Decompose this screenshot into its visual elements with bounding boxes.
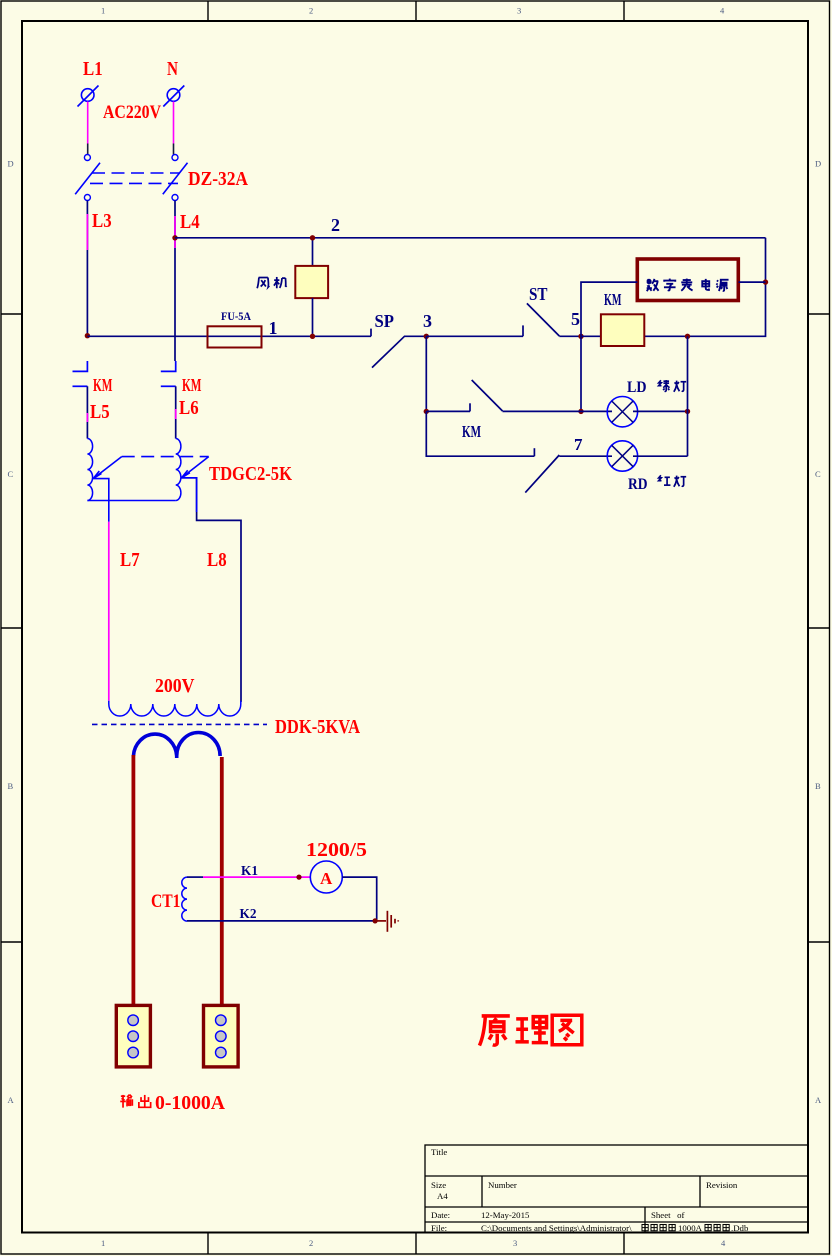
wire LD lamp left <box>581 410 612 412</box>
fan branch wire bottom <box>312 298 314 336</box>
svg-text:1: 1 <box>269 318 278 338</box>
wire N magenta <box>173 102 175 144</box>
svg-text:Number: Number <box>488 1180 517 1190</box>
svg-text:ST: ST <box>529 284 548 304</box>
fan branch wire top <box>312 238 314 266</box>
svg-text:L1: L1 <box>83 58 103 80</box>
node LD left junction <box>578 409 583 414</box>
breaker DZ-32A bottom pin circles <box>84 195 178 201</box>
wire 5 to KM coil <box>581 335 601 337</box>
node 5 junction <box>578 334 583 339</box>
node K1 junction <box>296 875 301 880</box>
svg-text:CT1: CT1 <box>151 891 181 912</box>
svg-text:1: 1 <box>101 1238 105 1248</box>
wire meter box left <box>581 282 637 336</box>
svg-text:LD: LD <box>627 379 647 396</box>
ground symbol <box>375 911 398 932</box>
svg-text:L3: L3 <box>92 210 112 232</box>
svg-text:12-May-2015: 12-May-2015 <box>481 1210 530 1220</box>
output terminal block right <box>204 1005 239 1067</box>
breaker DZ-32A dashed link <box>90 173 180 183</box>
svg-text:D: D <box>8 159 14 169</box>
border tick left B|C <box>1 627 22 629</box>
svg-text:Title: Title <box>431 1147 447 1157</box>
node KM aux junction <box>424 409 429 414</box>
svg-text:L5: L5 <box>90 401 110 423</box>
node lamp rail junction <box>685 334 690 339</box>
svg-text:3: 3 <box>423 311 432 331</box>
terminal L1 circle <box>78 86 99 107</box>
wire L8 blue top <box>182 478 197 512</box>
wire node aux down to RD row <box>426 411 534 456</box>
wire L8 from wiper <box>182 478 241 702</box>
variac winding bottom link <box>87 500 175 502</box>
wire L4 <box>174 201 176 362</box>
svg-text:3: 3 <box>517 6 521 16</box>
node meter box right junction <box>763 279 768 284</box>
svg-text:K1: K1 <box>241 864 258 879</box>
svg-text:Sheet of: Sheet of <box>651 1210 685 1220</box>
contactor coil KM box <box>601 314 644 346</box>
node L4/wire2 junction <box>172 235 177 240</box>
ammeter A <box>310 861 342 893</box>
border tick right B|C <box>808 627 830 629</box>
svg-text:C: C <box>8 469 14 479</box>
svg-text:200V: 200V <box>155 675 195 697</box>
svg-text:4: 4 <box>720 6 725 16</box>
wire K1 stub <box>187 876 203 878</box>
wire L7 magenta <box>108 522 110 701</box>
wire L6 <box>175 386 177 438</box>
border tick bottom 2|3 <box>415 1233 417 1255</box>
current transformer CT1 winding <box>182 877 187 921</box>
svg-text:AC220V: AC220V <box>103 102 161 123</box>
svg-text:File:: File: <box>431 1223 447 1233</box>
wire L7 from wiper <box>93 479 109 522</box>
svg-text:DZ-32A: DZ-32A <box>188 168 248 190</box>
title block frame <box>425 1145 808 1233</box>
wire meter box right <box>739 281 766 283</box>
svg-text:1: 1 <box>101 6 105 16</box>
wire LD lamp right <box>633 410 688 412</box>
svg-text:C: C <box>815 469 821 479</box>
fan box (blower) <box>295 266 328 298</box>
variac T1 right winding <box>176 439 181 501</box>
svg-text:.Ddb: .Ddb <box>731 1223 749 1233</box>
svg-text:D: D <box>815 159 821 169</box>
breaker DZ-32A top pin circles <box>84 155 178 161</box>
node fan top junction <box>310 235 315 240</box>
wire 3 to ST <box>426 335 523 337</box>
svg-text:L7: L7 <box>120 549 140 571</box>
lamp RD <box>607 441 637 471</box>
node fuse rail left junction <box>85 333 90 338</box>
border tick right C|D <box>808 313 830 315</box>
svg-text:3: 3 <box>513 1238 517 1248</box>
breaker DZ-32A blades <box>75 163 187 195</box>
svg-text:KM: KM <box>93 375 113 395</box>
border tick top 3|4 <box>623 1 625 21</box>
switch ST <box>523 303 581 336</box>
wire 2 horizontal <box>175 237 766 239</box>
svg-text:4: 4 <box>721 1238 726 1248</box>
svg-text:L6: L6 <box>179 397 199 419</box>
switch SP <box>371 329 426 368</box>
wire 1 rail (fuse to SP) <box>87 335 371 337</box>
variac T1 left winding <box>87 439 92 501</box>
svg-text:A: A <box>815 1095 822 1105</box>
wire K1 magenta <box>203 876 311 878</box>
wire L4 magenta segment <box>174 216 176 248</box>
svg-text:1000A: 1000A <box>678 1223 703 1233</box>
node LD right junction <box>685 409 690 414</box>
svg-text:1200/5: 1200/5 <box>306 839 367 861</box>
wire L5 magenta segment <box>86 413 88 422</box>
node ground junction <box>373 918 378 923</box>
wire L6 magenta segment <box>175 409 177 419</box>
border tick bottom 1|2 <box>207 1233 209 1255</box>
svg-text:TDGC2-5K: TDGC2-5K <box>209 463 292 485</box>
title block file path cjk + tail <box>642 1224 675 1230</box>
svg-text:SP: SP <box>375 311 395 331</box>
border tick left A|B <box>1 941 22 943</box>
label meter box CJK <box>647 279 729 291</box>
variac wiper arrow right <box>182 457 209 478</box>
svg-text:5: 5 <box>571 309 580 329</box>
label output 0-1000A <box>120 1095 150 1108</box>
wire L1 magenta <box>87 102 89 144</box>
svg-text:B: B <box>8 781 14 791</box>
border tick top 2|3 <box>415 1 417 21</box>
border tick right A|B <box>808 941 830 943</box>
transformer DDK secondary winding thick <box>133 732 220 758</box>
label fan CJK <box>257 277 286 288</box>
wire node3 down <box>425 336 427 411</box>
switch limit 7 <box>525 448 612 492</box>
wire lamp rail vertical <box>687 336 689 456</box>
contactor KM main contact left <box>73 361 88 386</box>
output bus bar right <box>220 757 224 1006</box>
svg-text:0-1000A: 0-1000A <box>155 1092 226 1114</box>
svg-text:2: 2 <box>309 6 313 16</box>
svg-text:RD: RD <box>628 476 648 493</box>
svg-text:KM: KM <box>182 375 202 395</box>
svg-text:B: B <box>815 781 821 791</box>
wire ammeter right <box>342 877 376 921</box>
svg-text:A4: A4 <box>437 1191 448 1201</box>
digital meter power supply box <box>637 259 738 301</box>
contactor KM main contact right <box>161 361 176 386</box>
variac wiper arrow left <box>93 457 122 479</box>
title block text <box>431 1147 738 1233</box>
svg-text:L8: L8 <box>207 549 227 571</box>
svg-text:K2: K2 <box>240 907 257 922</box>
svg-text:N: N <box>167 58 178 80</box>
svg-text:C:\Documents and Settings\Admi: C:\Documents and Settings\Administrator\ <box>481 1223 632 1233</box>
svg-text:KM: KM <box>462 422 481 441</box>
wire RD lamp right <box>633 455 688 457</box>
wire right drop to meter box <box>644 238 765 336</box>
node fan bottom junction <box>310 334 315 339</box>
output terminal block left <box>116 1005 150 1067</box>
svg-text:Date:: Date: <box>431 1210 450 1220</box>
wire L3 magenta segment <box>86 214 88 250</box>
lamp LD <box>607 397 637 427</box>
terminal N circle <box>163 86 184 107</box>
transformer DDK primary winding <box>109 701 241 716</box>
svg-text:KM: KM <box>604 290 622 309</box>
svg-text:7: 7 <box>574 435 583 454</box>
contact KM aux <box>426 380 581 411</box>
output bus bar left <box>131 755 135 1006</box>
svg-text:FU-5A: FU-5A <box>221 309 251 323</box>
wire K2 <box>187 920 377 922</box>
svg-text:L4: L4 <box>180 211 200 233</box>
title schematic CJK <box>479 1015 581 1045</box>
wire node5 down <box>580 336 582 411</box>
variac dashed gang line <box>122 456 209 458</box>
svg-text:2: 2 <box>331 215 340 235</box>
fuse FU-5A body <box>208 326 262 347</box>
border tick left C|D <box>1 313 22 315</box>
svg-text:DDK-5KVA: DDK-5KVA <box>275 716 360 738</box>
border tick bottom 3|4 <box>623 1233 625 1255</box>
node 3 junction <box>424 334 429 339</box>
svg-text:Size: Size <box>431 1180 446 1190</box>
border tick top 1|2 <box>207 1 209 21</box>
transformer DDK core dashed line <box>92 723 267 725</box>
svg-text:A: A <box>320 869 333 888</box>
svg-text:A: A <box>8 1095 15 1105</box>
wire L5 <box>86 386 88 438</box>
svg-text:2: 2 <box>309 1238 313 1248</box>
wire L3 <box>86 201 88 336</box>
svg-text:Revision: Revision <box>706 1180 738 1190</box>
